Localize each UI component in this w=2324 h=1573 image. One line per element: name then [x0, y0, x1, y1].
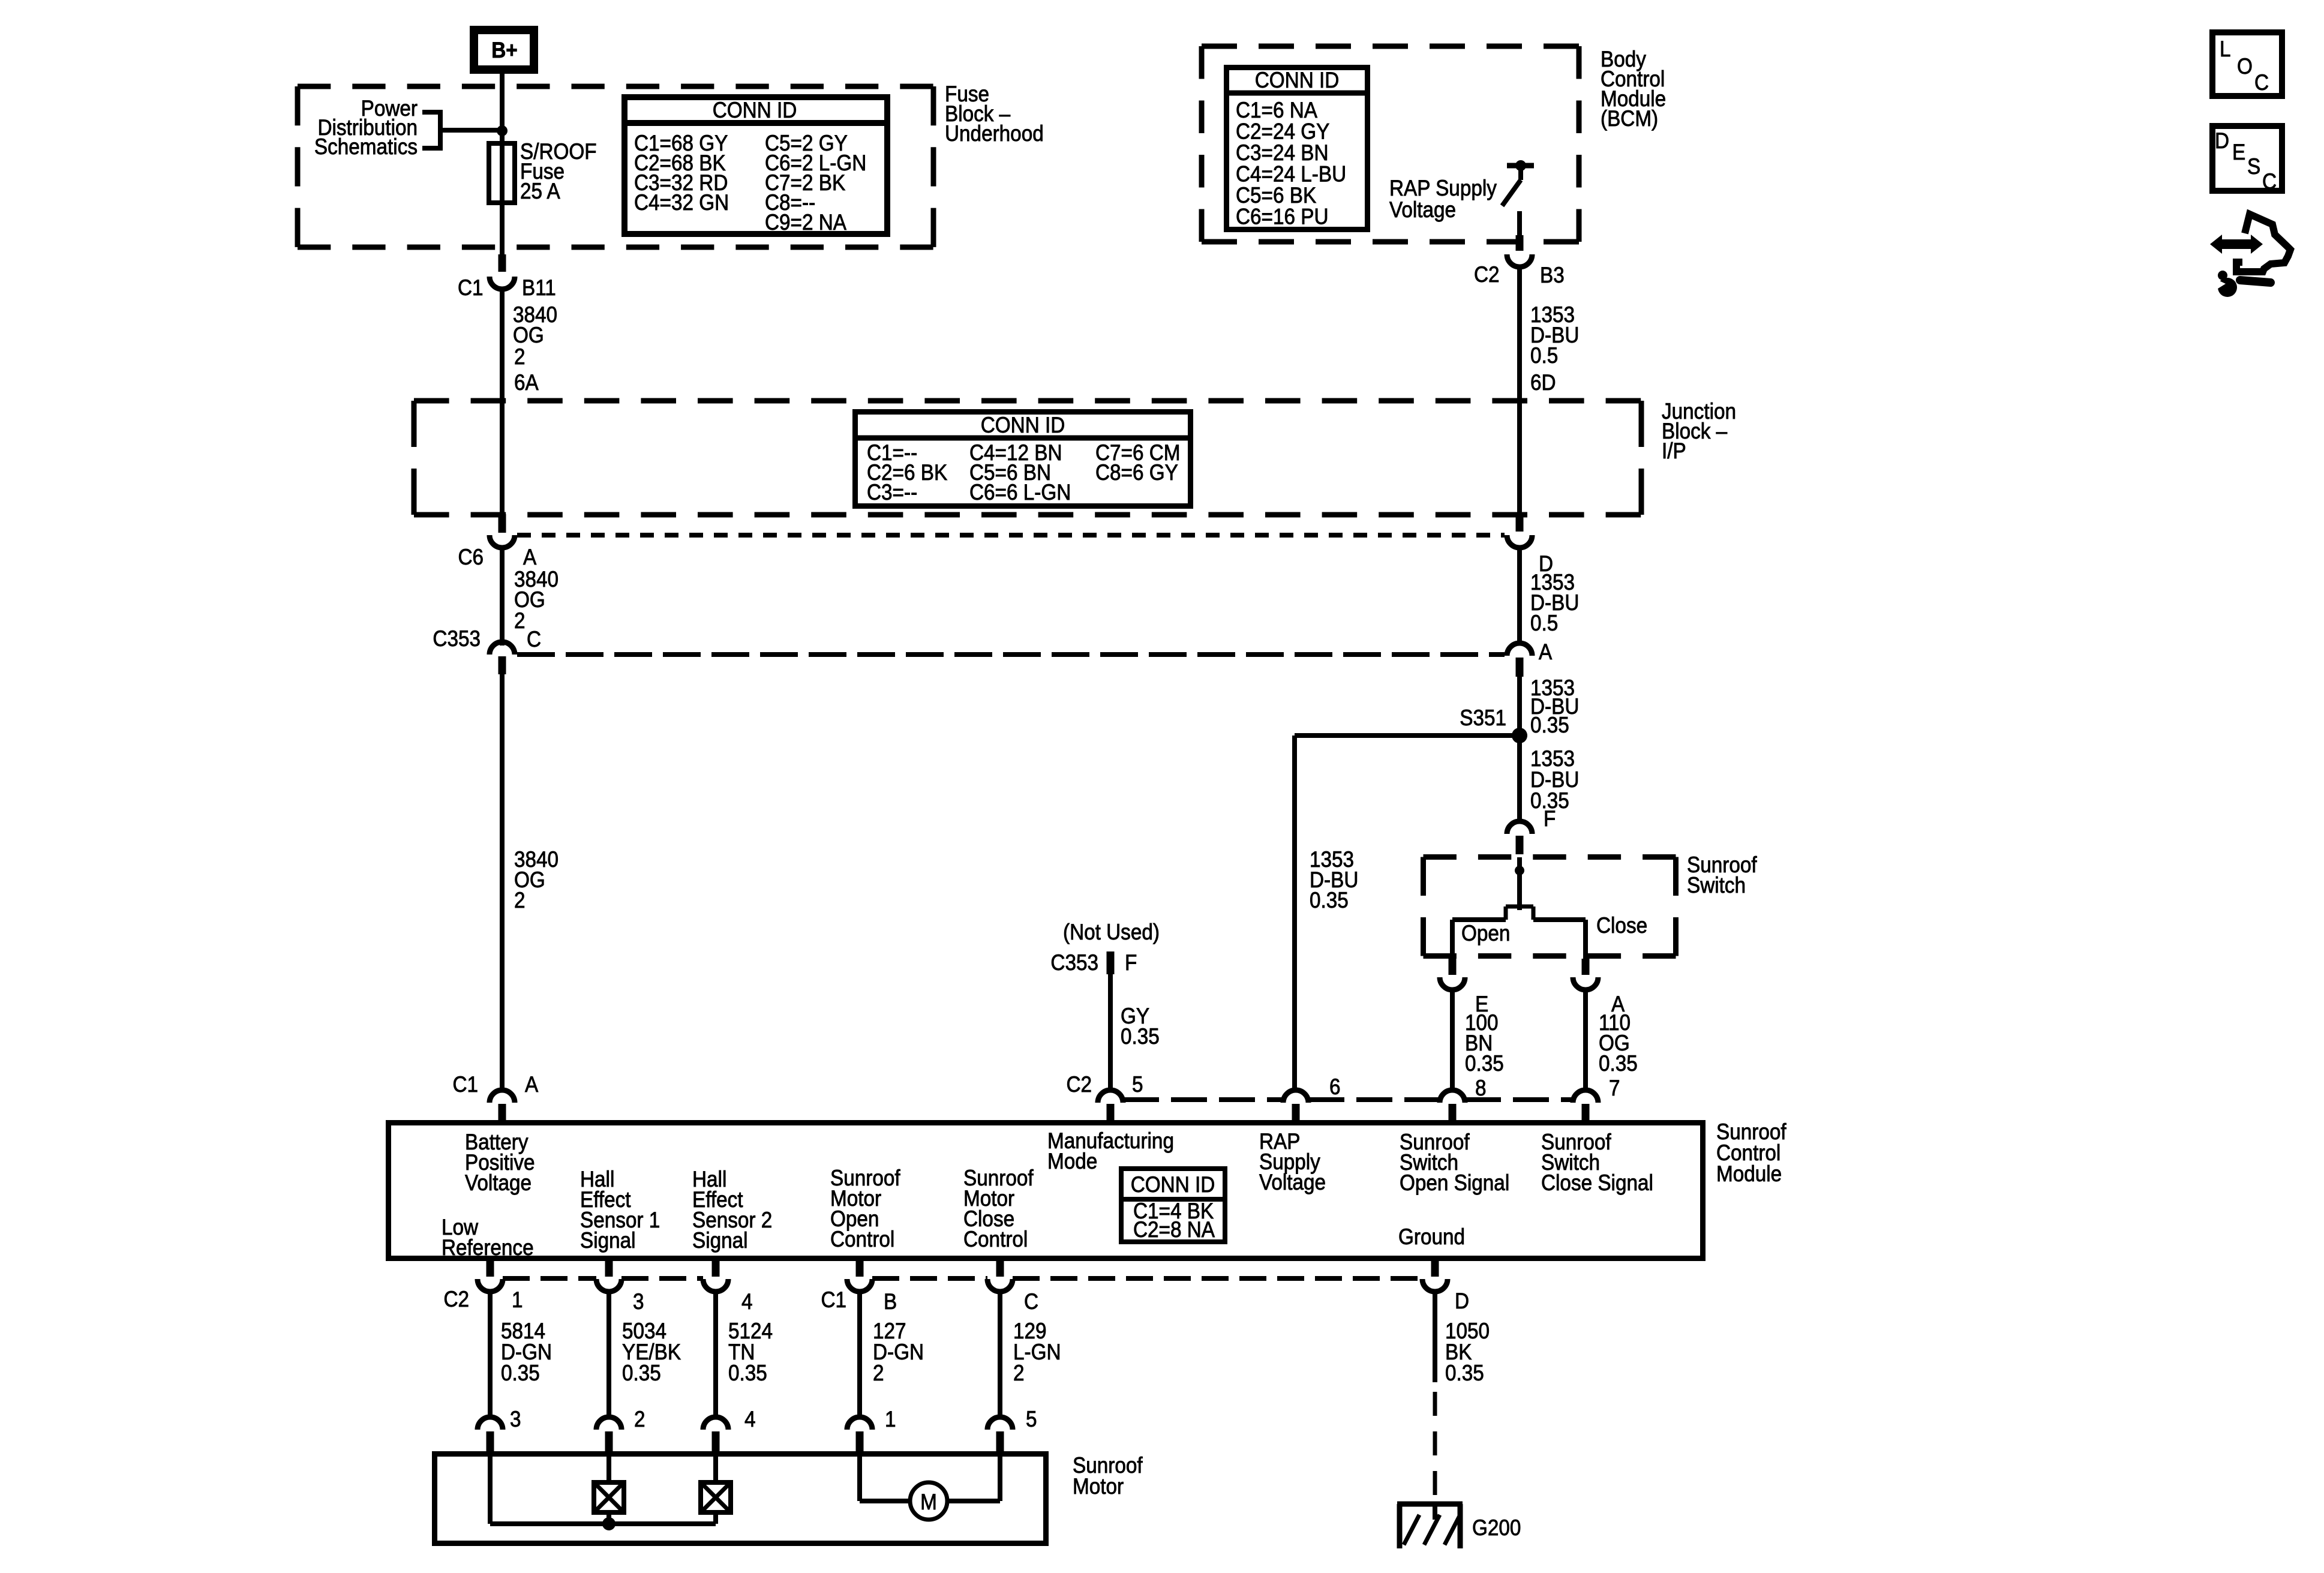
svg-text:(BCM): (BCM) — [1601, 106, 1658, 131]
svg-text:F: F — [1544, 806, 1556, 831]
svg-text:C9=2 NA: C9=2 NA — [765, 210, 847, 235]
svg-text:A: A — [525, 1072, 539, 1097]
svg-text:3: 3 — [633, 1289, 644, 1314]
svg-text:Module: Module — [1716, 1161, 1782, 1186]
svg-text:Voltage: Voltage — [1389, 197, 1456, 222]
svg-text:C6=6 L-GN: C6=6 L-GN — [969, 480, 1071, 505]
svg-text:C353: C353 — [433, 626, 481, 651]
svg-text:6D: 6D — [1530, 370, 1556, 395]
svg-text:C353: C353 — [1050, 950, 1098, 975]
svg-text:C6: C6 — [458, 545, 484, 569]
svg-text:A: A — [1539, 640, 1553, 664]
svg-text:Underhood: Underhood — [945, 121, 1044, 146]
svg-text:2: 2 — [514, 344, 526, 369]
svg-text:Switch: Switch — [1687, 873, 1746, 897]
svg-text:E: E — [2232, 140, 2245, 164]
svg-text:C2: C2 — [1474, 262, 1500, 287]
svg-text:2: 2 — [514, 608, 526, 633]
svg-text:Control: Control — [963, 1227, 1028, 1251]
svg-text:D: D — [1455, 1289, 1469, 1313]
svg-text:5: 5 — [1026, 1407, 1037, 1431]
svg-text:C2: C2 — [443, 1287, 469, 1311]
svg-text:0.35: 0.35 — [728, 1361, 767, 1385]
svg-text:C8=6 GY: C8=6 GY — [1095, 460, 1178, 485]
svg-text:0.35: 0.35 — [1530, 713, 1569, 737]
svg-text:C: C — [2254, 70, 2269, 95]
svg-text:6: 6 — [1329, 1074, 1341, 1099]
svg-text:D: D — [2215, 128, 2229, 153]
svg-text:M: M — [920, 1490, 937, 1514]
svg-text:8: 8 — [1475, 1076, 1487, 1100]
svg-text:5: 5 — [1132, 1072, 1143, 1097]
svg-text:1: 1 — [885, 1407, 896, 1431]
svg-text:Reference: Reference — [442, 1235, 534, 1260]
svg-text:C4=32 GN: C4=32 GN — [634, 190, 729, 215]
svg-text:Control: Control — [830, 1227, 894, 1251]
svg-text:B11: B11 — [522, 275, 556, 300]
svg-text:0.5: 0.5 — [1530, 611, 1558, 635]
svg-text:2: 2 — [514, 888, 526, 912]
svg-text:0.35: 0.35 — [1599, 1051, 1638, 1076]
svg-text:G200: G200 — [1472, 1515, 1521, 1540]
svg-text:C: C — [1024, 1289, 1038, 1314]
svg-text:Voltage: Voltage — [465, 1170, 532, 1195]
svg-text:C: C — [527, 627, 541, 652]
svg-text:C2: C2 — [1066, 1072, 1092, 1097]
svg-text:0.5: 0.5 — [1530, 343, 1558, 368]
svg-text:B3: B3 — [1540, 263, 1565, 287]
svg-text:C2=8 NA: C2=8 NA — [1133, 1217, 1215, 1242]
svg-text:S351: S351 — [1460, 706, 1506, 730]
svg-text:0.35: 0.35 — [1121, 1024, 1160, 1049]
svg-text:2: 2 — [634, 1407, 645, 1431]
svg-text:4: 4 — [744, 1407, 756, 1431]
svg-text:4: 4 — [741, 1289, 753, 1314]
svg-text:(Not Used): (Not Used) — [1063, 920, 1160, 944]
svg-text:Close Signal: Close Signal — [1541, 1170, 1653, 1195]
svg-text:2: 2 — [873, 1361, 884, 1385]
svg-text:CONN ID: CONN ID — [1255, 68, 1340, 92]
svg-text:I/P: I/P — [1662, 439, 1686, 463]
svg-text:25 A: 25 A — [520, 179, 560, 203]
svg-text:A: A — [523, 545, 537, 569]
svg-text:7: 7 — [1609, 1076, 1620, 1100]
svg-text:C1: C1 — [452, 1072, 478, 1097]
svg-text:Close: Close — [1596, 913, 1647, 938]
svg-text:Ground: Ground — [1398, 1224, 1465, 1249]
svg-text:L: L — [2220, 37, 2231, 61]
svg-text:O: O — [2237, 54, 2253, 79]
svg-text:CONN ID: CONN ID — [981, 413, 1065, 437]
svg-text:1: 1 — [512, 1287, 523, 1312]
svg-text:RAP Supply: RAP Supply — [1389, 176, 1497, 200]
svg-text:Signal: Signal — [692, 1228, 748, 1253]
svg-text:3: 3 — [510, 1407, 521, 1431]
svg-text:CONN ID: CONN ID — [713, 98, 797, 122]
svg-text:0.35: 0.35 — [622, 1361, 661, 1385]
svg-text:2: 2 — [1013, 1361, 1025, 1385]
svg-text:0.35: 0.35 — [501, 1361, 540, 1385]
svg-text:C: C — [2262, 169, 2277, 194]
svg-text:6A: 6A — [514, 370, 539, 395]
svg-text:C6=16 PU: C6=16 PU — [1236, 205, 1329, 229]
svg-text:Signal: Signal — [580, 1228, 636, 1253]
svg-text:F: F — [1125, 950, 1137, 975]
svg-text:Open: Open — [1461, 921, 1510, 945]
svg-text:B: B — [884, 1289, 897, 1314]
svg-text:CONN ID: CONN ID — [1131, 1172, 1215, 1197]
svg-text:C3=--: C3=-- — [867, 480, 917, 505]
svg-text:Open Signal: Open Signal — [1400, 1170, 1509, 1195]
svg-text:Voltage: Voltage — [1259, 1170, 1326, 1194]
svg-text:0.35: 0.35 — [1465, 1051, 1504, 1076]
svg-text:S: S — [2247, 154, 2260, 179]
svg-text:B+: B+ — [491, 38, 517, 62]
svg-text:C1: C1 — [458, 275, 484, 300]
svg-text:Mode: Mode — [1047, 1149, 1097, 1173]
svg-text:0.35: 0.35 — [1445, 1361, 1484, 1385]
svg-text:C1: C1 — [821, 1287, 846, 1312]
svg-text:OG: OG — [513, 323, 544, 347]
svg-text:0.35: 0.35 — [1310, 888, 1349, 912]
svg-text:Motor: Motor — [1073, 1474, 1124, 1499]
svg-text:Schematics: Schematics — [314, 134, 418, 159]
